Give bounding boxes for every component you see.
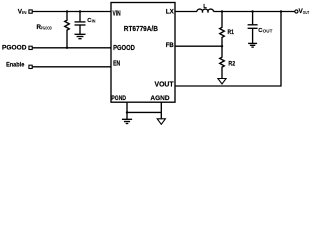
svg-text:PGND: PGND (111, 95, 126, 102)
wire PGND down (126, 102, 128, 119)
wire PGND-AGND connector (127, 111, 161, 113)
node dot COUT top (251, 10, 253, 12)
resistor R1 (220, 12, 225, 47)
ground earth CIN (75, 33, 86, 35)
terminal Enable (29, 65, 32, 68)
svg-text:Enable: Enable (6, 62, 25, 69)
node dot CIN top (79, 10, 81, 12)
svg-text:PGOOD: PGOOD (2, 45, 27, 52)
svg-text:IN: IN (92, 19, 96, 24)
wire LX to inductor (175, 11, 197, 13)
wire EN line (terminal to IC) (32, 66, 111, 68)
svg-text:VOUT: VOUT (155, 82, 175, 89)
svg-text:IN: IN (22, 10, 27, 15)
wire VIN rail (terminal to IC) (32, 11, 111, 13)
wire FB line (IC to R1/R2 node) (175, 45, 222, 47)
node dot inductor b (207, 11, 209, 13)
svg-text:OUT: OUT (263, 28, 273, 33)
ground earth COUT (248, 42, 257, 44)
node dot feedback top (280, 10, 282, 12)
svg-text:R2: R2 (228, 61, 235, 68)
capacitor COUT (252, 12, 254, 25)
resistor RPGOOD (65, 12, 70, 48)
svg-text:RT6779A/B: RT6779A/B (124, 26, 158, 33)
wire output rail (inductor to VOUT terminal) (214, 11, 295, 13)
svg-text:EN: EN (113, 61, 120, 68)
svg-text:VIN: VIN (113, 10, 121, 17)
svg-text:FB: FB (166, 42, 174, 49)
resistor R2 (220, 46, 225, 78)
svg-text:L: L (203, 4, 207, 10)
terminal VIN (29, 10, 32, 13)
capacitor CIN (79, 12, 81, 22)
node dot RPGOOD bottom (66, 47, 68, 49)
node dot FB junction (221, 45, 223, 47)
node dot inductor a (202, 11, 204, 13)
terminal VOUT (295, 10, 298, 13)
wire VOUT pin feedback (IC to output node) (175, 12, 281, 87)
ground signal AGND (open triangle) (157, 119, 165, 125)
svg-text:LX: LX (166, 9, 175, 16)
svg-text:R1: R1 (228, 29, 235, 36)
svg-text:AGND: AGND (150, 95, 169, 102)
wire AGND down (160, 102, 162, 118)
node dot RPGOOD top (66, 10, 68, 12)
svg-text:PGOOD: PGOOD (113, 45, 135, 52)
wire PGOOD line (terminal to IC) (32, 47, 111, 49)
inductor L (197, 9, 214, 11)
terminal PGOOD (29, 46, 32, 49)
ground earth PGND (122, 118, 132, 120)
svg-text:OUT: OUT (303, 10, 310, 15)
node dot R1 top (221, 10, 223, 12)
ground signal R2 (open triangle) (218, 79, 226, 85)
op-amp U1 IC box RT6779A/B (111, 3, 175, 103)
node dot PGND junction (126, 111, 128, 113)
svg-text:PGOOD: PGOOD (41, 25, 52, 30)
